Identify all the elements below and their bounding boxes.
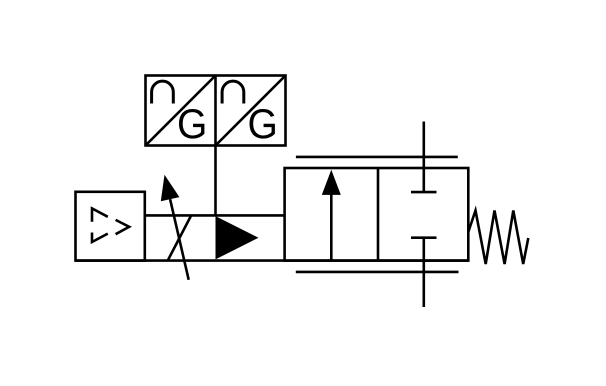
proportional line below valve [296,271,459,274]
lower blocked port T bar [411,236,437,239]
amplifier dashed triangle: bottom-left corner [92,233,108,243]
lower blocked port vertical line [422,238,425,307]
solenoid 1 diagonal [146,76,216,146]
amplifier box [76,192,145,261]
check valve filled triangle [216,216,259,259]
solenoid divider [214,76,217,146]
solenoid 2 diagonal [216,76,286,146]
label G (solenoid 1) [179,109,204,139]
amplifier dashed triangle: right chevron [116,220,130,234]
up arrow shaft (left valve square) [330,193,333,260]
flow channel bottom line (runs under amp box, channel and valve box) [76,259,469,262]
up arrow head [322,170,341,195]
solenoid block outline (two proportional solenoids) [146,76,286,146]
variable throttle cross diagonal [168,215,192,260]
amplifier dashed triangle: top-left corner [92,208,108,221]
throttle adjustment arrow head [161,175,180,202]
valve position divider [377,168,380,261]
valve body outline [285,168,469,261]
upper blocked port T bar [411,191,437,194]
label G (solenoid 2) [250,109,275,139]
solenoid 1 coil arc [152,81,174,103]
throttle adjustment arrow shaft [170,199,189,280]
flow channel top line [145,214,285,217]
upper blocked port vertical line [422,122,425,194]
solenoid 2 coil arc [222,81,244,103]
proportional line above valve [296,156,458,159]
wire from solenoids down to pilot line [214,146,217,217]
return spring [468,211,528,265]
